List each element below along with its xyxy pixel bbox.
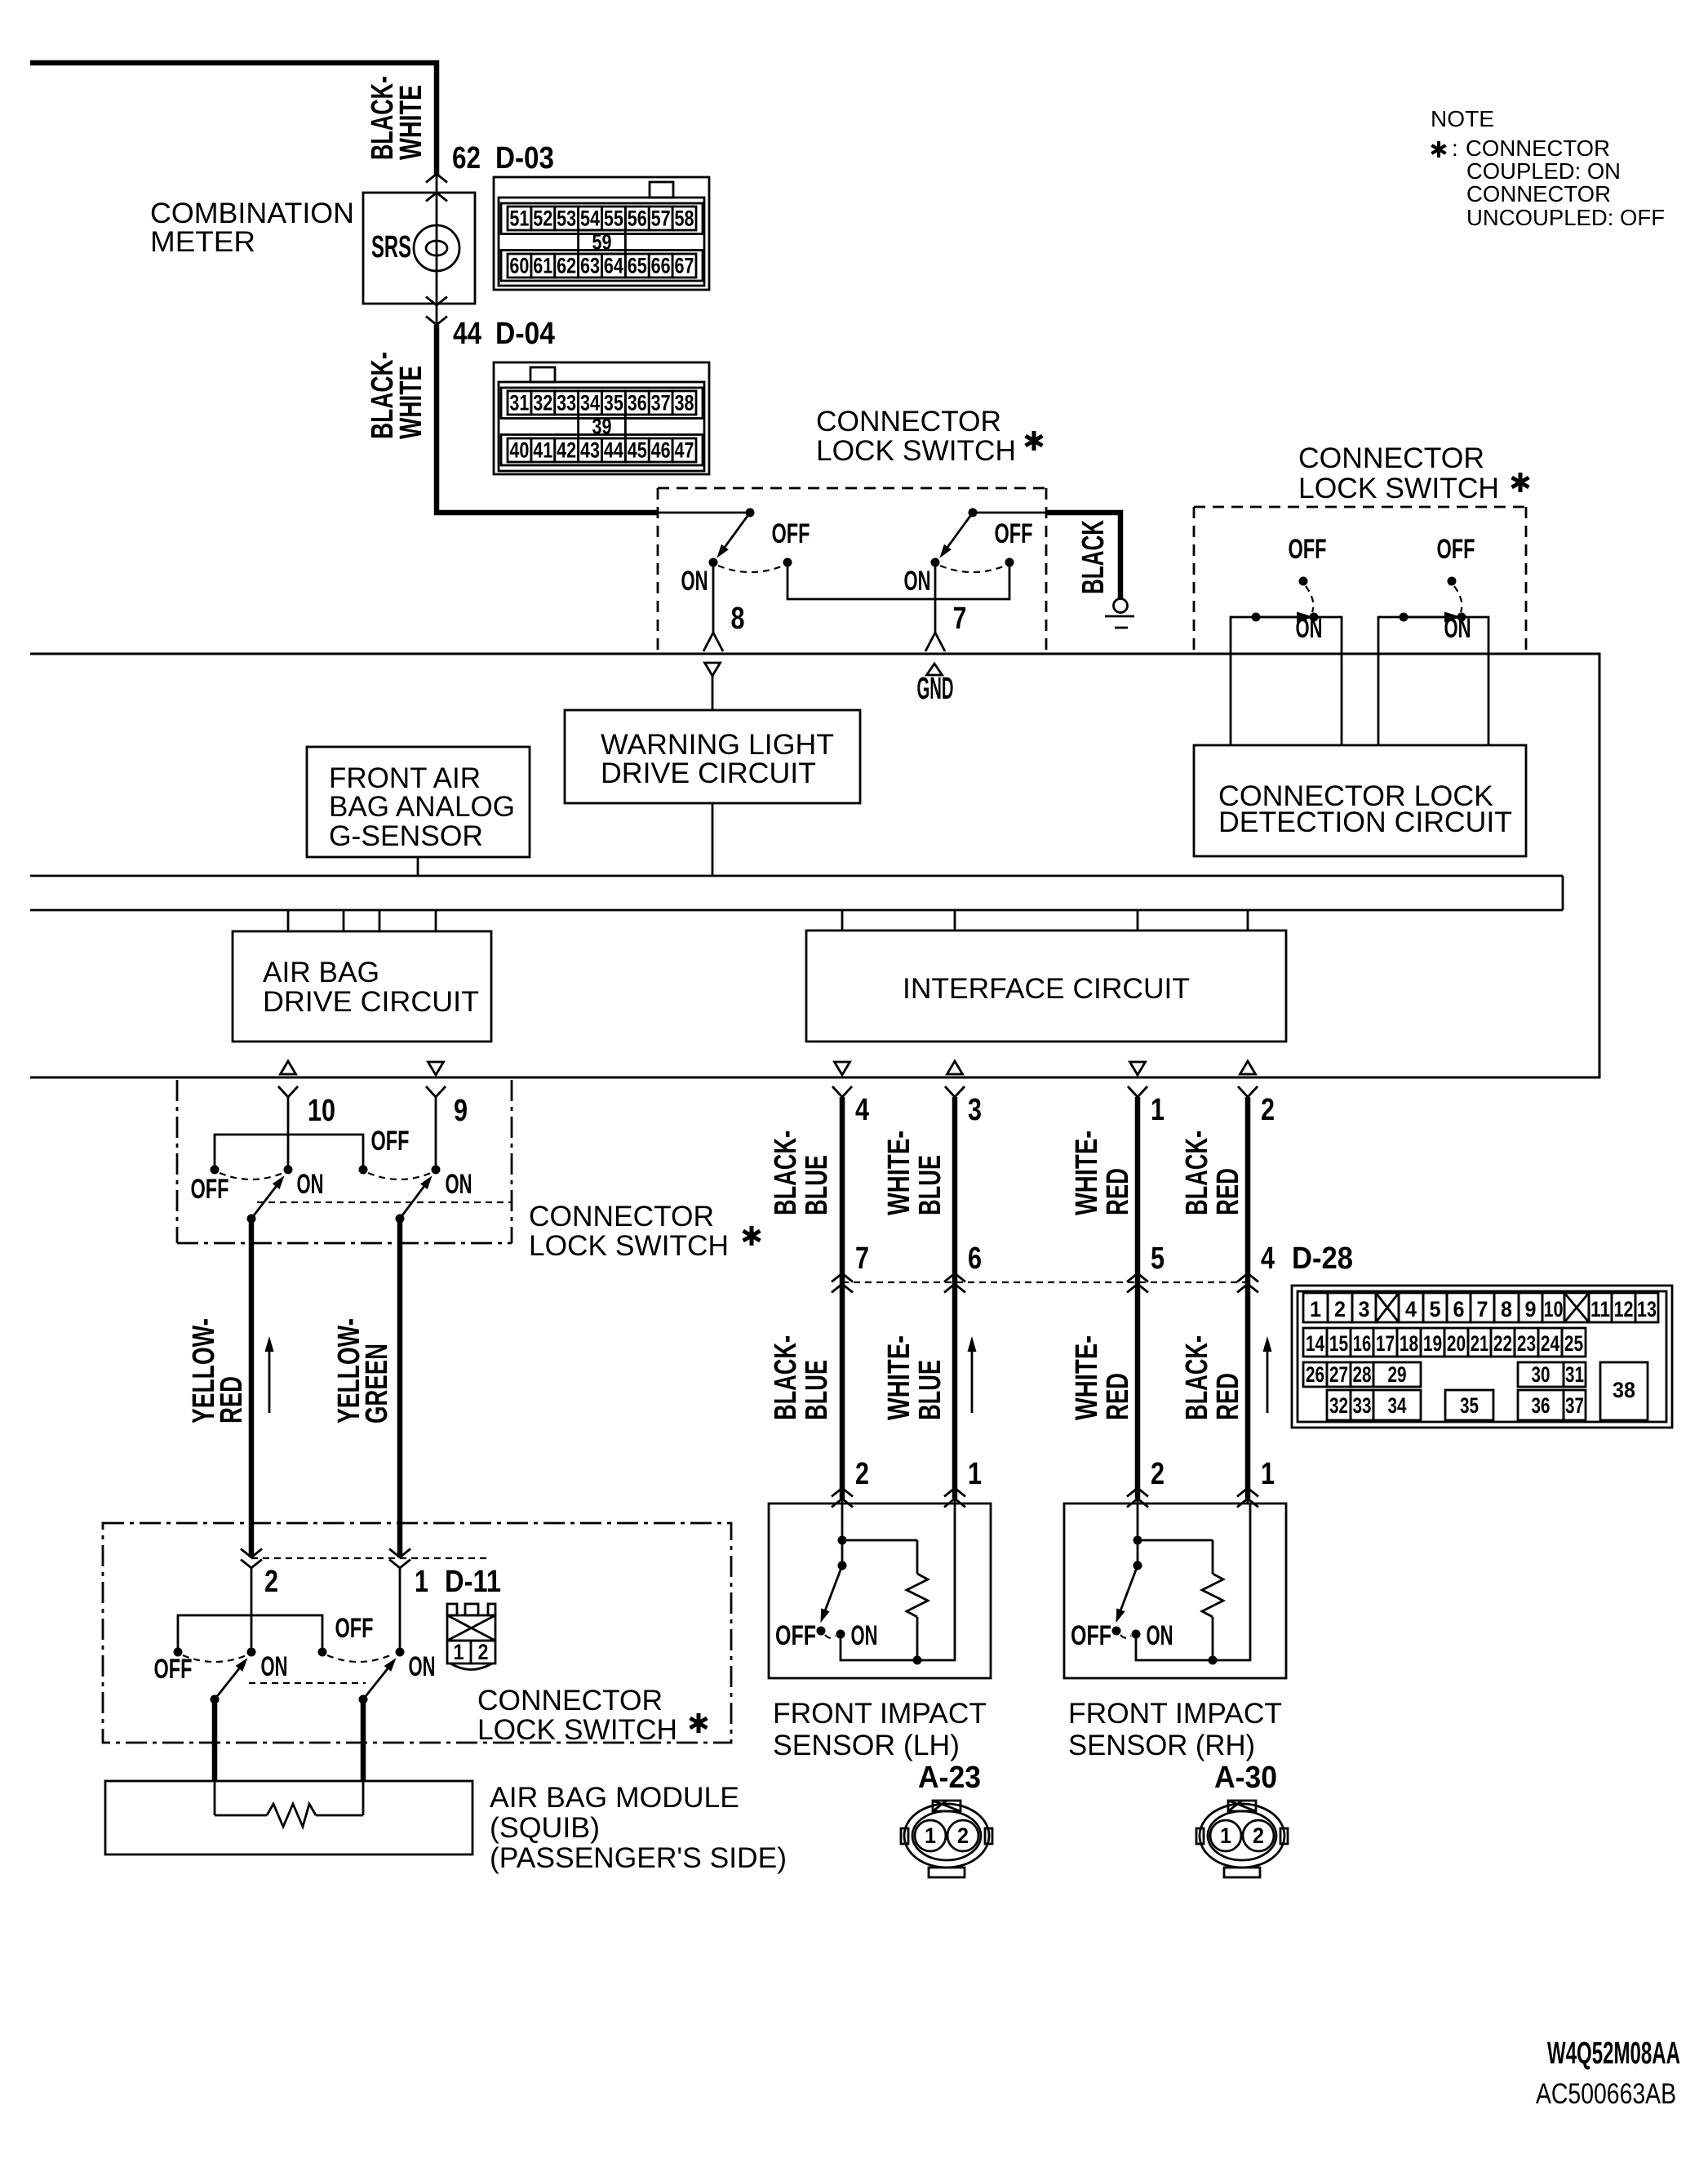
svg-text:3: 3 bbox=[968, 1093, 982, 1127]
connector D-28 in-line dashed link bbox=[842, 1281, 1248, 1283]
switch SW3 dashed travel arc bbox=[220, 1173, 283, 1179]
svg-text:8: 8 bbox=[1501, 1297, 1512, 1321]
detection switch B OFF contact node bbox=[1448, 577, 1457, 586]
switch SW3 arm (ON position) bbox=[251, 1175, 285, 1219]
svg-text:41: 41 bbox=[533, 438, 552, 463]
connector lock switch label (pins 10,9) bbox=[529, 1201, 760, 1262]
pin label 2 (A-30) bbox=[1151, 1457, 1165, 1491]
pin label 3 bbox=[968, 1093, 982, 1127]
front impact sensor LH label bbox=[773, 1698, 987, 1761]
svg-text:1: 1 bbox=[1220, 1823, 1231, 1848]
svg-text:10: 10 bbox=[1544, 1297, 1564, 1321]
svg-text:33: 33 bbox=[557, 391, 576, 415]
pin label 7 (D-28) bbox=[855, 1241, 869, 1276]
switch SW3 ON contact node bbox=[284, 1166, 293, 1175]
svg-text:BLUE: BLUE bbox=[913, 1360, 947, 1420]
svg-text:GREEN: GREEN bbox=[360, 1344, 394, 1423]
svg-text:BLACK-: BLACK- bbox=[1180, 1130, 1214, 1215]
sensor LH wire to pin 1 bbox=[917, 1503, 955, 1660]
connector D-28 break chevrons wire 7 bbox=[832, 1273, 853, 1293]
sensor LH resistor bbox=[907, 1574, 928, 1660]
svg-text:2: 2 bbox=[264, 1565, 278, 1599]
svg-text:21: 21 bbox=[1471, 1331, 1488, 1356]
svg-text:AIR BAG MODULE: AIR BAG MODULE bbox=[490, 1782, 739, 1814]
front air bag analog g-sensor label bbox=[329, 762, 515, 852]
svg-text:ON: ON bbox=[409, 1651, 436, 1682]
svg-text:WHITE-: WHITE- bbox=[882, 1130, 916, 1215]
svg-text:67: 67 bbox=[675, 254, 694, 278]
svg-text:LOCK SWITCH: LOCK SWITCH bbox=[477, 1714, 677, 1746]
connector D-11 in-line dashed link bbox=[251, 1557, 490, 1559]
svg-text:1: 1 bbox=[1261, 1457, 1275, 1491]
pin 3 triangle bbox=[947, 1061, 963, 1074]
squib resistor bbox=[215, 1781, 363, 1827]
pin label 1 (D-11) bbox=[415, 1565, 428, 1599]
wire SW6 pivot to squib bbox=[361, 1699, 366, 1781]
svg-text:SRS: SRS bbox=[371, 230, 411, 264]
wire label YELLOW-RED bbox=[187, 1318, 249, 1423]
connector D-11 label bbox=[445, 1565, 501, 1599]
switch SW6 pivot node bbox=[359, 1695, 368, 1704]
svg-text:WHITE: WHITE bbox=[394, 85, 428, 160]
svg-text:CONNECTOR: CONNECTOR bbox=[1466, 181, 1611, 207]
wire BLACK-RED pin2 to D-28 bbox=[1245, 1097, 1251, 1499]
mechanical link dashed line SW5-SW6 bbox=[249, 1682, 366, 1684]
air bag drive circuit label bbox=[263, 957, 479, 1018]
connector lock switch label (right) bbox=[1298, 442, 1528, 504]
svg-text:34: 34 bbox=[580, 391, 600, 415]
sensor RH ON contact node bbox=[1132, 1630, 1141, 1639]
svg-text:OFF: OFF bbox=[1071, 1620, 1111, 1651]
svg-text:A-23: A-23 bbox=[918, 1761, 981, 1795]
wire BLACK-BLUE pin4 to D-28 bbox=[840, 1097, 845, 1499]
svg-text:8: 8 bbox=[731, 602, 745, 636]
switch SW3 pivot node bbox=[247, 1215, 256, 1224]
pin 9 triangle bbox=[428, 1062, 444, 1075]
svg-text:ON: ON bbox=[1296, 613, 1323, 644]
svg-text:RED: RED bbox=[215, 1376, 249, 1423]
pin label 10 bbox=[308, 1094, 335, 1128]
svg-text:2: 2 bbox=[957, 1823, 969, 1848]
wire BLACK to ground bbox=[1046, 513, 1120, 599]
sensor RH wire to pin 1 bbox=[1213, 1503, 1250, 1660]
combination meter label bbox=[150, 198, 354, 258]
connector A-23 face view bbox=[901, 1801, 992, 1877]
svg-text:45: 45 bbox=[628, 438, 647, 463]
GND label bbox=[917, 672, 954, 706]
wire SW2 ON contact to pin 7 bbox=[934, 562, 937, 633]
wire label WHITE-RED (lower) bbox=[1070, 1335, 1135, 1420]
wire warning light circuit to bus bbox=[712, 803, 714, 876]
connector D-28 break chevrons wire 6 bbox=[944, 1273, 965, 1293]
svg-text:38: 38 bbox=[675, 391, 694, 415]
svg-text:D-11: D-11 bbox=[445, 1565, 501, 1599]
wire SW5 from chevrons to ON contact bbox=[251, 1568, 253, 1652]
svg-text:65: 65 bbox=[628, 254, 647, 278]
svg-text:RED: RED bbox=[1101, 1373, 1135, 1420]
sensor LH ON label bbox=[851, 1620, 878, 1651]
svg-text:COMBINATION: COMBINATION bbox=[150, 198, 354, 229]
connector A-30 break chevrons wire 2 bbox=[1127, 1488, 1148, 1508]
connector D-28 break chevrons wire 5 bbox=[1127, 1273, 1148, 1293]
switch SW5 pivot node bbox=[211, 1695, 220, 1704]
connector A-30 face view bbox=[1196, 1801, 1288, 1877]
sensor LH switch arm (OFF position) bbox=[820, 1566, 842, 1623]
switch SW5 OFF label bbox=[154, 1654, 193, 1685]
connector lock detection circuit box bbox=[1194, 745, 1526, 856]
internal bus bar bbox=[30, 876, 1563, 910]
pin 1 terminal fork bbox=[1128, 1086, 1147, 1097]
pin 2 terminal fork bbox=[1238, 1086, 1258, 1097]
svg-text:9: 9 bbox=[454, 1094, 468, 1128]
switch SW2 ON label bbox=[904, 566, 931, 597]
sensor LH wire ON contact down bbox=[841, 1634, 917, 1660]
pin label 1 (A-30) bbox=[1261, 1457, 1275, 1491]
svg-text:OFF: OFF bbox=[995, 518, 1033, 549]
svg-text:20: 20 bbox=[1447, 1331, 1466, 1356]
svg-text:OFF: OFF bbox=[335, 1613, 374, 1644]
switch SW4 ON label bbox=[446, 1169, 472, 1200]
switch SW3 ON label bbox=[297, 1169, 324, 1200]
pin label 2 (D-11) bbox=[264, 1565, 278, 1599]
wire BLACK-WHITE down to connector lock switch bbox=[437, 325, 658, 513]
svg-text:WHITE-: WHITE- bbox=[1070, 1335, 1104, 1420]
svg-text:60: 60 bbox=[509, 254, 529, 278]
svg-text:W4Q52M08AA: W4Q52M08AA bbox=[1547, 2036, 1680, 2071]
svg-text:2: 2 bbox=[1151, 1457, 1165, 1491]
switch SW4 pivot node bbox=[396, 1215, 405, 1224]
pin 4 triangle bbox=[835, 1062, 850, 1075]
pin label 1 bbox=[1151, 1093, 1165, 1127]
svg-text:BLACK-: BLACK- bbox=[1180, 1335, 1214, 1420]
sensor RH dashed travel arc bbox=[1120, 1635, 1131, 1638]
svg-text:D-28: D-28 bbox=[1292, 1241, 1353, 1276]
switch SW6 dashed travel arc bbox=[327, 1655, 390, 1662]
pin label 62 bbox=[452, 141, 481, 175]
svg-text:RED: RED bbox=[1211, 1373, 1245, 1420]
svg-text:OFF: OFF bbox=[154, 1654, 193, 1685]
svg-text:ON: ON bbox=[446, 1169, 472, 1200]
svg-text:OFF: OFF bbox=[775, 1620, 816, 1651]
svg-text:27: 27 bbox=[1329, 1362, 1348, 1387]
wire into lock switch pin 8 side bbox=[658, 512, 750, 514]
svg-text:32: 32 bbox=[1329, 1393, 1348, 1418]
svg-text:35: 35 bbox=[604, 391, 623, 415]
connector A-23 label bbox=[918, 1761, 981, 1795]
svg-text:13: 13 bbox=[1637, 1297, 1657, 1321]
svg-text:ON: ON bbox=[1147, 1620, 1173, 1651]
mechanical link dashed line SW3-SW4 bbox=[257, 1201, 512, 1203]
wire BLACK-WHITE from combination meter (thick feed, top left) bbox=[30, 63, 437, 175]
connector D-11 break chevrons wire 1 bbox=[389, 1549, 410, 1569]
detection switch A OFF label bbox=[1289, 534, 1327, 565]
svg-text::: : bbox=[1452, 135, 1458, 161]
wire SW6 from chevrons to ON contact bbox=[399, 1568, 401, 1652]
switch SW3 OFF contact node bbox=[211, 1166, 220, 1175]
svg-text:53: 53 bbox=[557, 207, 576, 231]
sensor RH junction node bbox=[1133, 1536, 1142, 1545]
svg-text:DRIVE CIRCUIT: DRIVE CIRCUIT bbox=[263, 986, 479, 1018]
sensor LH resistor bottom node bbox=[913, 1656, 922, 1665]
svg-text:30: 30 bbox=[1532, 1362, 1551, 1387]
svg-text:1: 1 bbox=[454, 1640, 464, 1664]
detection switch A arm arrow (ON) bbox=[1261, 612, 1314, 623]
svg-text:BAG ANALOG: BAG ANALOG bbox=[329, 791, 515, 823]
svg-text:22: 22 bbox=[1493, 1331, 1512, 1356]
svg-text:G-SENSOR: G-SENSOR bbox=[329, 820, 483, 852]
svg-text:28: 28 bbox=[1353, 1362, 1372, 1387]
switch SW1 ON contact node bbox=[709, 558, 718, 567]
switch SW4 arm (ON position) bbox=[400, 1175, 433, 1219]
direction arrow (black-red wire) bbox=[1263, 1336, 1272, 1413]
svg-text:4: 4 bbox=[1261, 1241, 1275, 1276]
wire label BLACK bbox=[1076, 520, 1111, 594]
detection switch B dashed travel arc bbox=[1454, 586, 1462, 612]
svg-text:2: 2 bbox=[478, 1640, 489, 1664]
svg-text:CONNECTOR: CONNECTOR bbox=[477, 1685, 663, 1717]
switch SW1 arm (ON position) bbox=[716, 513, 750, 558]
sensor RH wire pin2 internal bbox=[1137, 1503, 1139, 1566]
wire WHITE-RED pin1 to D-28 bbox=[1135, 1097, 1141, 1499]
sensor RH resistor branch top bbox=[1138, 1540, 1213, 1574]
connector lock detection circuit label bbox=[1218, 780, 1512, 838]
pin label 5 (D-28) bbox=[1151, 1241, 1165, 1276]
connector D-28 label bbox=[1292, 1241, 1353, 1276]
svg-text:19: 19 bbox=[1423, 1331, 1442, 1356]
switch SW2 pivot node bbox=[969, 509, 978, 517]
svg-text:61: 61 bbox=[533, 254, 552, 278]
svg-text:47: 47 bbox=[675, 438, 694, 463]
connector D-11 break chevrons wire 2 bbox=[241, 1549, 262, 1569]
svg-text:10: 10 bbox=[308, 1094, 335, 1128]
svg-text:64: 64 bbox=[604, 254, 623, 278]
svg-text:D-04: D-04 bbox=[495, 317, 555, 351]
svg-text:37: 37 bbox=[651, 391, 671, 415]
svg-text:55: 55 bbox=[604, 207, 623, 231]
svg-text:LOCK SWITCH: LOCK SWITCH bbox=[529, 1230, 729, 1262]
pin 4 terminal fork bbox=[832, 1086, 852, 1097]
svg-text:16: 16 bbox=[1353, 1331, 1371, 1356]
svg-text:OFF: OFF bbox=[191, 1174, 229, 1205]
svg-text:SENSOR (RH): SENSOR (RH) bbox=[1068, 1730, 1255, 1761]
switch SW5 arm (ON position) bbox=[215, 1658, 248, 1699]
pin 7 terminal fork bbox=[925, 633, 945, 651]
svg-text:14: 14 bbox=[1306, 1331, 1324, 1356]
sensor LH OFF contact node bbox=[817, 1627, 826, 1636]
sensor RH switch arm (OFF position) bbox=[1116, 1566, 1138, 1623]
switch SW5 dashed travel arc bbox=[183, 1655, 246, 1662]
svg-text:32: 32 bbox=[533, 391, 552, 415]
svg-text:51: 51 bbox=[509, 207, 529, 231]
wire label BLACK-RED (lower) bbox=[1180, 1335, 1245, 1420]
svg-text:54: 54 bbox=[580, 207, 600, 231]
svg-text:1: 1 bbox=[1310, 1297, 1321, 1321]
pin 9 terminal fork bbox=[426, 1086, 446, 1097]
switch SW5 OFF contact node bbox=[174, 1648, 183, 1657]
switch SW6 OFF contact node bbox=[318, 1648, 327, 1657]
svg-text:CONNECTOR: CONNECTOR bbox=[816, 406, 1001, 437]
connector A-23 break chevrons wire 2 bbox=[832, 1488, 853, 1508]
wire SW2 pivot to BLACK wire bbox=[973, 512, 1046, 514]
detection switch B pivot node bbox=[1400, 613, 1409, 622]
svg-text:29: 29 bbox=[1388, 1362, 1407, 1387]
interface circuit box bbox=[806, 930, 1286, 1042]
switch SW3 OFF label bbox=[191, 1174, 229, 1205]
wire label BLACK-RED (upper) bbox=[1180, 1130, 1245, 1215]
detection switch B frame bbox=[1378, 617, 1488, 745]
detection switch B arm arrow (ON) bbox=[1409, 612, 1462, 623]
svg-text:1: 1 bbox=[968, 1457, 982, 1491]
svg-text:ON: ON bbox=[261, 1651, 288, 1682]
warning light drive circuit box bbox=[565, 710, 860, 803]
svg-text:WHITE: WHITE bbox=[394, 366, 428, 439]
wire label WHITE-BLUE (lower) bbox=[882, 1335, 947, 1420]
switch SW1 OFF contact node bbox=[783, 558, 792, 567]
svg-text:CONNECTOR: CONNECTOR bbox=[1466, 135, 1610, 161]
switch SW2 OFF label bbox=[995, 518, 1033, 549]
sensor RH OFF label bbox=[1071, 1620, 1111, 1651]
svg-text:UNCOUPLED: OFF: UNCOUPLED: OFF bbox=[1466, 205, 1665, 230]
wire YELLOW-RED from SW3 pivot bbox=[249, 1219, 255, 1557]
svg-text:OFF: OFF bbox=[1437, 534, 1475, 565]
detection switch A frame bbox=[1231, 617, 1342, 745]
svg-text:DETECTION CIRCUIT: DETECTION CIRCUIT bbox=[1218, 806, 1512, 838]
svg-text:BLACK-: BLACK- bbox=[769, 1335, 803, 1420]
svg-text:7: 7 bbox=[953, 602, 967, 636]
front air bag analog g-sensor box bbox=[307, 747, 530, 857]
air bag drive circuit box bbox=[233, 931, 491, 1042]
wire label BLACK-WHITE (upper) bbox=[366, 76, 428, 160]
svg-text:FRONT IMPACT: FRONT IMPACT bbox=[1068, 1698, 1282, 1730]
wire label YELLOW-GREEN bbox=[332, 1318, 394, 1423]
air bag module label bbox=[490, 1782, 787, 1874]
sensor RH ON label bbox=[1147, 1620, 1173, 1651]
switch SW2 ON contact node bbox=[931, 558, 940, 567]
wire label BLACK-WHITE (lower) bbox=[366, 352, 428, 439]
note text block bbox=[1431, 106, 1665, 230]
sensor LH pivot node bbox=[838, 1561, 847, 1570]
pin label 7 bbox=[953, 602, 967, 636]
ground symbol bbox=[1105, 599, 1134, 628]
pin label 2 bbox=[1261, 1093, 1275, 1127]
connector lock switch label (D-11) bbox=[477, 1685, 707, 1746]
pin 8 triangle (output) bbox=[705, 663, 721, 676]
switch SW2 arm (ON position) bbox=[939, 513, 973, 558]
warning light drive circuit label bbox=[601, 729, 834, 789]
svg-text:2: 2 bbox=[1261, 1093, 1275, 1127]
svg-text:D-03: D-03 bbox=[495, 141, 554, 175]
pin label 4 bbox=[855, 1093, 869, 1127]
svg-text:AIR BAG: AIR BAG bbox=[263, 957, 379, 988]
switch SW4 OFF label bbox=[371, 1126, 410, 1157]
svg-text:METER: METER bbox=[150, 226, 255, 258]
svg-text:WARNING LIGHT: WARNING LIGHT bbox=[601, 729, 834, 761]
svg-text:4: 4 bbox=[855, 1093, 869, 1127]
svg-text:31: 31 bbox=[1565, 1362, 1584, 1387]
connector lock switch box (pins 8,7) dashed outline bbox=[658, 488, 1046, 653]
connector A-30 break chevrons wire 1 bbox=[1237, 1488, 1258, 1508]
pin label 9 bbox=[454, 1094, 468, 1128]
svg-text:58: 58 bbox=[675, 207, 694, 231]
pin label 44 bbox=[453, 317, 481, 351]
sensor LH OFF label bbox=[775, 1620, 816, 1651]
sensor RH pivot node bbox=[1133, 1561, 1142, 1570]
svg-text:37: 37 bbox=[1565, 1393, 1584, 1418]
svg-text:25: 25 bbox=[1564, 1331, 1583, 1356]
svg-text:31: 31 bbox=[509, 391, 529, 415]
svg-text:38: 38 bbox=[1613, 1378, 1635, 1402]
switch SW6 ON label bbox=[409, 1651, 436, 1682]
pin label 2 (A-23) bbox=[855, 1457, 869, 1491]
svg-text:36: 36 bbox=[628, 391, 647, 415]
pin 8 terminal fork bbox=[703, 633, 723, 651]
svg-text:2: 2 bbox=[1334, 1297, 1346, 1321]
wire g-sensor to bus bbox=[417, 857, 419, 876]
svg-text:44: 44 bbox=[453, 317, 481, 351]
link wire between SW5/SW6 OFF contacts bbox=[178, 1615, 322, 1652]
switch SW5 ON contact node bbox=[247, 1648, 256, 1657]
sensor LH dashed travel arc bbox=[825, 1635, 836, 1638]
svg-text:7: 7 bbox=[855, 1241, 869, 1276]
svg-text:SENSOR (LH): SENSOR (LH) bbox=[773, 1730, 960, 1761]
svg-text:66: 66 bbox=[651, 254, 671, 278]
switch SW6 ON contact node bbox=[396, 1648, 405, 1657]
pin 10 terminal fork bbox=[278, 1086, 298, 1097]
sensor LH junction node bbox=[838, 1536, 847, 1545]
wires bus to air bag drive circuit bbox=[288, 910, 436, 931]
svg-text:A-30: A-30 bbox=[1214, 1761, 1277, 1795]
svg-text:39: 39 bbox=[592, 415, 612, 439]
wires bus to interface circuit bbox=[842, 910, 1248, 930]
direction arrow (yellow-red wire) bbox=[265, 1336, 274, 1413]
pin label 8 bbox=[731, 602, 745, 636]
wire pin 10 to SW3 ON contact bbox=[287, 1097, 290, 1170]
air bag module (squib) box bbox=[105, 1781, 472, 1854]
switch SW4 OFF contact node bbox=[359, 1166, 368, 1175]
svg-text:9: 9 bbox=[1525, 1297, 1537, 1321]
connector lock switch box (pins 10,9) dash-dot outline bbox=[177, 1080, 512, 1243]
svg-text:COUPLED: ON: COUPLED: ON bbox=[1466, 158, 1621, 184]
switch SW6 OFF label bbox=[335, 1613, 374, 1644]
connector D-04 pin 44 break chevrons bbox=[426, 291, 447, 325]
switch SW1 dashed travel arc bbox=[718, 566, 783, 572]
svg-text:40: 40 bbox=[509, 438, 529, 463]
sensor RH wire ON contact down bbox=[1136, 1634, 1213, 1660]
wire SW5 pivot to squib bbox=[212, 1699, 218, 1781]
SRS warning lamp label bbox=[371, 230, 411, 264]
connector lock switch box (detection) dashed outline bbox=[1194, 507, 1526, 652]
connector D-28 break chevrons wire 4 bbox=[1237, 1273, 1258, 1293]
svg-text:2: 2 bbox=[855, 1457, 869, 1491]
pin 1 triangle bbox=[1130, 1062, 1146, 1075]
front impact sensor RH label bbox=[1068, 1698, 1282, 1761]
svg-text:3: 3 bbox=[1359, 1297, 1370, 1321]
svg-text:NOTE: NOTE bbox=[1431, 106, 1494, 131]
switch SW2 dashed travel arc bbox=[940, 566, 1005, 572]
SRS warning lamp bulb bbox=[414, 225, 459, 271]
pin 3 terminal fork bbox=[945, 1086, 965, 1097]
svg-text:35: 35 bbox=[1460, 1393, 1479, 1418]
svg-text:11: 11 bbox=[1590, 1297, 1610, 1321]
detection switch B OFF label bbox=[1437, 534, 1475, 565]
detection switch A OFF contact node bbox=[1299, 577, 1308, 586]
switch SW4 ON contact node bbox=[432, 1166, 441, 1175]
svg-text:5: 5 bbox=[1430, 1297, 1441, 1321]
pin label 4 (D-28) bbox=[1261, 1241, 1275, 1276]
svg-text:AC500663AB: AC500663AB bbox=[1536, 2078, 1676, 2110]
switch SW4 dashed travel arc bbox=[368, 1173, 431, 1179]
svg-text:BLACK: BLACK bbox=[1076, 520, 1111, 594]
